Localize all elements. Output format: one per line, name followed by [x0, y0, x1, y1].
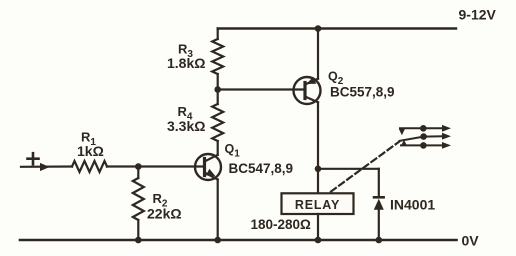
svg-text:22kΩ: 22kΩ [147, 206, 182, 222]
wire Q2 emitter to 9-12V rail [317, 29, 319, 79]
relay contact NC top [399, 125, 451, 135]
svg-text:9-12V: 9-12V [459, 6, 497, 22]
relay contact common blade [400, 133, 452, 141]
transistor Q1 BC547 NPN [195, 154, 221, 180]
svg-text:IN4001: IN4001 [390, 196, 435, 212]
wire R1 to Q1 base [107, 165, 205, 167]
svg-text:1kΩ: 1kΩ [77, 143, 104, 159]
resistor R3 [212, 29, 223, 90]
node junction diode rail [376, 237, 383, 244]
diode D1 IN4001 [374, 169, 384, 240]
wire junction to Q2 base [218, 88, 305, 90]
node junction R2 bottom rail [135, 237, 142, 244]
relay contact NO bottom [401, 140, 451, 149]
svg-text:1.8kΩ: 1.8kΩ [167, 55, 205, 71]
net 9-12V top supply rail [218, 27, 456, 29]
node junction R1/R2 [135, 163, 142, 170]
input arrow [40, 163, 50, 171]
resistor R1 [72, 161, 107, 172]
wire Q1 emitter to 0V [217, 180, 219, 241]
svg-text:180-280Ω: 180-280Ω [251, 217, 312, 232]
resistor R4 [212, 90, 223, 155]
wire Q2 collector down [317, 102, 319, 193]
relay coil K1 box [282, 193, 354, 214]
transistor Q2 BC557 PNP [294, 77, 321, 104]
node junction relay rail [315, 237, 322, 244]
node junction R3/R4/Q2-base [214, 86, 221, 93]
wire relay to 0V [317, 214, 319, 240]
node junction Q1 emitter rail [214, 237, 221, 244]
net 0V bottom rail [20, 239, 457, 242]
input polarity + [28, 153, 39, 164]
svg-text:RELAY: RELAY [295, 198, 340, 212]
svg-text:0V: 0V [462, 232, 480, 248]
node junction Q2 collector / diode branch [315, 166, 322, 173]
svg-text:3.3kΩ: 3.3kΩ [167, 118, 205, 134]
mechanical link dashed line relay to contacts [331, 142, 399, 192]
wire diode branch horizontal [318, 168, 379, 170]
svg-text:BC557,8,9: BC557,8,9 [330, 85, 395, 100]
node junction Q2 emitter rail [315, 25, 322, 32]
wire input lead [21, 165, 72, 168]
svg-text:BC547,8,9: BC547,8,9 [229, 161, 294, 176]
resistor R2 [133, 167, 144, 241]
svg-text:Q1: Q1 [225, 142, 241, 160]
